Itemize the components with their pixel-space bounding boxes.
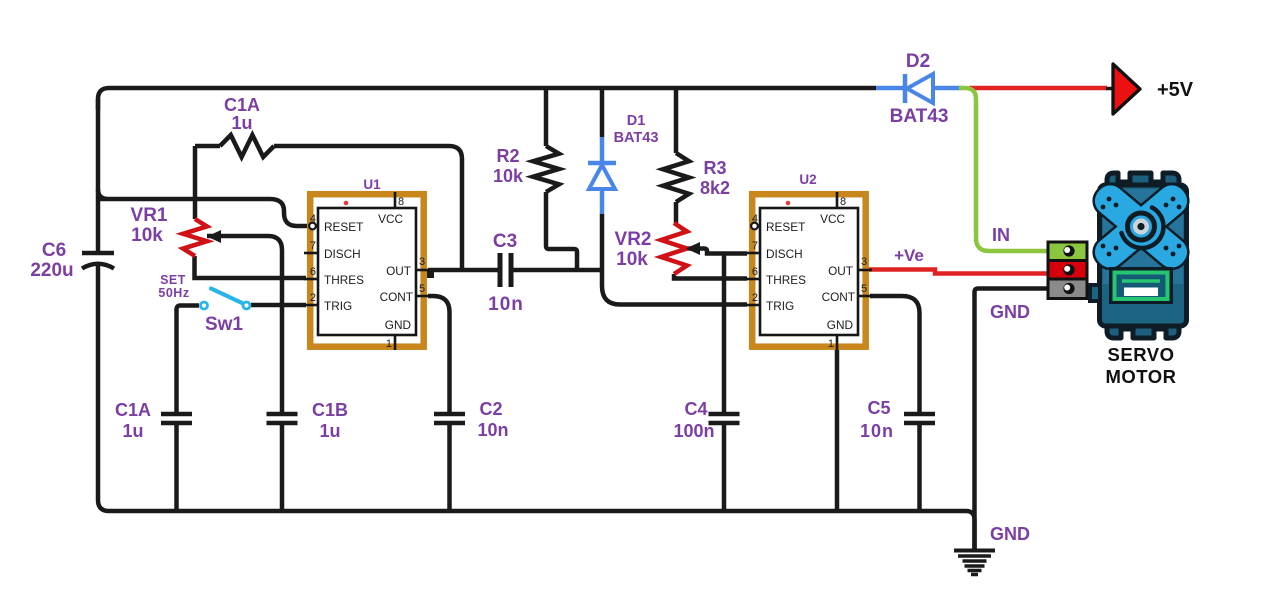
wire Sw1 left terminal down to C1A cap xyxy=(177,306,200,413)
svg-text:DISCH: DISCH xyxy=(766,247,803,261)
svg-text:D1: D1 xyxy=(627,113,646,129)
svg-text:1: 1 xyxy=(828,338,834,350)
wire VR1 top lead to C1A left xyxy=(193,146,198,219)
svg-text:C6: C6 xyxy=(42,240,66,261)
capacitor C3 10n plates xyxy=(500,253,511,287)
wire left rail upper (to C6 top) xyxy=(96,99,101,251)
wire C4 below cap to bottom rail xyxy=(722,425,727,511)
capacitor C5 10n plates xyxy=(904,414,935,423)
svg-text:220u: 220u xyxy=(30,260,73,281)
svg-text:R3: R3 xyxy=(703,158,726,178)
diode D1 BAT43 (blue, cathode bar up) xyxy=(588,137,616,214)
svg-text:+5V: +5V xyxy=(1157,79,1194,101)
svg-text:3: 3 xyxy=(861,256,867,268)
svg-text:VCC: VCC xyxy=(378,212,403,226)
U1 internal asterisk xyxy=(344,201,349,206)
wire C1B below cap to bottom rail xyxy=(280,425,285,511)
svg-text:MOTOR: MOTOR xyxy=(1105,366,1176,387)
svg-text:BAT43: BAT43 xyxy=(890,106,949,127)
svg-text:2: 2 xyxy=(752,292,758,304)
wire C2 below cap to bottom rail xyxy=(447,425,452,511)
svg-text:U2: U2 xyxy=(799,172,816,187)
wire +Ve red from U2 OUT to connector xyxy=(869,270,1049,274)
svg-text:10n: 10n xyxy=(488,294,524,315)
svg-text:1u: 1u xyxy=(231,113,252,133)
wire C4 vertical from DISCH node down to C4 cap xyxy=(722,254,727,413)
svg-text:VR1: VR1 xyxy=(131,205,168,226)
svg-text:4: 4 xyxy=(310,213,316,225)
svg-text:BAT43: BAT43 xyxy=(614,130,659,146)
svg-text:2: 2 xyxy=(310,292,316,304)
servo horn center hub xyxy=(1122,208,1164,249)
node small junction square below OUT pin xyxy=(427,270,434,278)
servo left mount tab xyxy=(1090,285,1100,301)
U2 pin stubs xyxy=(746,192,872,350)
svg-text:VCC: VCC xyxy=(820,212,845,226)
svg-text:6: 6 xyxy=(310,266,316,278)
potentiometer VR1 10k body xyxy=(183,219,207,256)
wire D1 lower lead to U2 TRIG (black, rounded corner) xyxy=(602,214,747,305)
svg-text:50Hz: 50Hz xyxy=(158,286,189,300)
svg-text:SET: SET xyxy=(160,273,186,287)
wire C1A left lead xyxy=(195,144,220,149)
svg-text:GND: GND xyxy=(990,302,1030,322)
svg-text:5: 5 xyxy=(419,283,425,295)
capacitor C1B 1u plates xyxy=(267,414,298,423)
svg-text:7: 7 xyxy=(752,240,758,252)
wire left rail lower (C6 bottom to bottom rail corner) xyxy=(98,266,109,511)
potentiometer VR2 wiper arrow xyxy=(686,242,700,255)
svg-text:8: 8 xyxy=(398,196,404,208)
capacitor C1A bottom 1u plates xyxy=(161,414,192,423)
servo body inner lighter panel xyxy=(1103,189,1183,284)
wire green servo IN signal from D2 node down to connector xyxy=(959,88,1048,251)
U1 pin stubs xyxy=(304,192,430,350)
wire D1 upper lead (black) xyxy=(600,88,605,137)
svg-text:CONT: CONT xyxy=(822,290,855,304)
svg-text:4: 4 xyxy=(752,213,758,225)
svg-text:THRES: THRES xyxy=(766,273,806,287)
svg-text:OUT: OUT xyxy=(386,264,411,278)
svg-text:6: 6 xyxy=(752,266,758,278)
svg-text:CONT: CONT xyxy=(380,290,413,304)
resistor R2 10k body xyxy=(533,146,559,192)
svg-text:RESET: RESET xyxy=(324,220,363,234)
wire servo GND from connector down to ground symbol xyxy=(975,289,1049,550)
svg-text:RESET: RESET xyxy=(766,220,805,234)
svg-text:D2: D2 xyxy=(906,51,930,72)
svg-text:C4: C4 xyxy=(684,399,707,419)
svg-text:8: 8 xyxy=(840,196,846,208)
resistor R3 8k2 body xyxy=(663,153,689,202)
wire U2 CONT pin 5 to C5 cap xyxy=(870,296,920,412)
servo main body xyxy=(1100,185,1187,326)
svg-text:VR2: VR2 xyxy=(615,229,652,250)
svg-text:10k: 10k xyxy=(493,166,524,186)
power flag +5V red arrow xyxy=(1106,87,1113,91)
svg-text:R2: R2 xyxy=(496,146,519,166)
svg-text:DISCH: DISCH xyxy=(324,247,361,261)
svg-text:SERVO: SERVO xyxy=(1108,344,1175,365)
svg-text:10k: 10k xyxy=(131,225,163,246)
capacitor C6 220u (polarized) xyxy=(82,253,114,269)
wire VR1 wiper to C1B vertical xyxy=(207,236,282,250)
svg-text:C1A: C1A xyxy=(224,95,260,115)
svg-text:8k2: 8k2 xyxy=(700,178,730,198)
wire top +5V rail with left rounded corner xyxy=(98,88,876,110)
svg-text:GND: GND xyxy=(827,318,853,332)
servo motor icon xyxy=(1089,173,1193,387)
svg-text:Sw1: Sw1 xyxy=(205,314,243,335)
wire VR2 bottom to U2 THRES pin 6 xyxy=(674,274,747,279)
svg-text:OUT: OUT xyxy=(828,264,853,278)
servo horn screw holes xyxy=(1101,197,1182,257)
svg-text:TRIG: TRIG xyxy=(766,299,794,313)
svg-text:C1A: C1A xyxy=(115,400,151,420)
wire U1 CONT pin 5 to C2 cap xyxy=(428,296,450,412)
svg-text:7: 7 xyxy=(310,240,316,252)
wire VR1 bottom to U1 THRES pin 6 xyxy=(195,256,307,278)
connector J1 servo header (green/red/gray pins) xyxy=(1048,242,1087,299)
wire U1 reset feed from left rail (y=199 with S-curve into pin 4) xyxy=(98,189,308,226)
svg-text:IN: IN xyxy=(992,225,1010,245)
svg-text:1: 1 xyxy=(386,338,392,350)
op-amp/timer U1 (555) orange frame xyxy=(304,177,430,350)
op-amp/timer U2 (555) orange frame xyxy=(746,172,872,350)
U1 RESET inversion circle pin 4 xyxy=(309,223,316,230)
svg-text:1u: 1u xyxy=(319,421,340,441)
switch Sw1 (cyan SPST) xyxy=(201,289,251,310)
wire Sw1 right terminal to U1 TRIG pin 2 xyxy=(251,303,306,308)
wire C3 right to D1 vertical xyxy=(511,268,603,273)
svg-text:+Ve: +Ve xyxy=(894,246,924,265)
wire R2 bottom jog to OUT/C3 node xyxy=(546,192,577,268)
svg-text:TRIG: TRIG xyxy=(324,299,352,313)
svg-text:1u: 1u xyxy=(122,421,143,441)
wire bottom ground rail xyxy=(109,511,975,549)
wire R3 bottom lead into VR2 xyxy=(674,202,679,223)
wire red +5V from D2 to arrow xyxy=(969,86,1107,91)
wire U2 GND pin 1 to bottom rail xyxy=(835,349,840,511)
capacitor C2 10n plates xyxy=(434,414,465,423)
svg-text:C3: C3 xyxy=(493,231,517,252)
svg-text:10n: 10n xyxy=(477,420,508,440)
wire C1A right lead down to OUT node xyxy=(274,146,462,268)
svg-text:C1B: C1B xyxy=(312,400,348,420)
svg-text:GND: GND xyxy=(990,524,1030,544)
diode D2 BAT43 (blue, pointing left) xyxy=(876,74,961,103)
svg-text:10k: 10k xyxy=(616,249,648,270)
wire R3 top lead from +5V rail xyxy=(674,88,679,153)
svg-text:5: 5 xyxy=(861,283,867,295)
wire VR2 wiper jog to U2 DISCH pin 7 xyxy=(686,249,747,254)
potentiometer VR1 wiper arrow xyxy=(207,230,221,243)
servo horn X (fills) xyxy=(1089,180,1193,274)
svg-text:U1: U1 xyxy=(363,177,381,192)
ground symbol GND (tapered bars) xyxy=(954,551,995,575)
svg-text:THRES: THRES xyxy=(324,273,364,287)
svg-text:10n: 10n xyxy=(860,421,894,441)
servo horn X (strokes) xyxy=(1089,180,1193,274)
wire U1 OUT pin 3 to C3 xyxy=(428,268,500,273)
svg-text:3: 3 xyxy=(419,256,425,268)
wire C1B vertical (wiper down through THRES/TRIG to C1B cap) xyxy=(280,250,285,412)
U2 RESET inversion circle pin 4 xyxy=(751,223,758,230)
capacitor C4 100n plates xyxy=(709,414,740,423)
svg-text:C2: C2 xyxy=(479,399,502,419)
svg-text:100n: 100n xyxy=(673,421,714,441)
servo bottom cap (castellated) xyxy=(1107,318,1179,338)
servo top cap (castellated) xyxy=(1107,173,1179,196)
capacitor C1A top (zigzag symbol) 1u xyxy=(220,135,274,157)
wire R2 top lead from +5V rail xyxy=(544,88,549,146)
servo label window (green) xyxy=(1112,270,1171,302)
wire C1A below cap to bottom rail xyxy=(174,425,179,511)
wire C5 below cap to bottom rail xyxy=(917,425,922,511)
U2 internal asterisk xyxy=(786,201,791,206)
svg-text:GND: GND xyxy=(385,318,411,332)
potentiometer VR2 10k body xyxy=(661,223,687,274)
svg-text:C5: C5 xyxy=(867,398,890,418)
